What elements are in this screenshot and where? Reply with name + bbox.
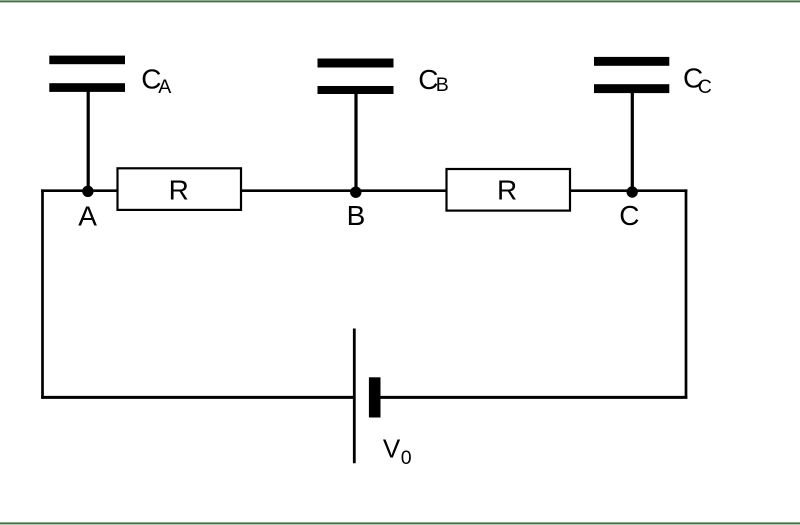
svg-text:V: V bbox=[383, 434, 401, 464]
svg-text:C: C bbox=[698, 76, 712, 98]
svg-text:C: C bbox=[619, 200, 639, 231]
svg-text:0: 0 bbox=[401, 447, 412, 469]
svg-text:B: B bbox=[347, 200, 366, 231]
svg-text:B: B bbox=[436, 74, 449, 96]
svg-text:A: A bbox=[78, 200, 97, 231]
svg-text:R: R bbox=[169, 174, 189, 205]
svg-text:R: R bbox=[497, 175, 517, 206]
svg-text:A: A bbox=[158, 76, 171, 98]
